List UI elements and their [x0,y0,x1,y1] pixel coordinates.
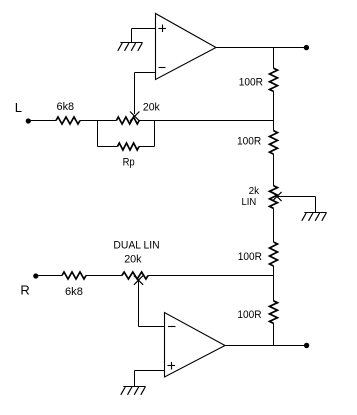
svg-text:2k: 2k [249,185,260,197]
svg-text:L: L [15,100,22,115]
svg-text:100R: 100R [238,251,262,263]
svg-text:20k: 20k [124,254,142,266]
svg-text:20k: 20k [143,102,160,114]
svg-text:100R: 100R [239,77,263,89]
svg-text:Rp: Rp [123,157,135,169]
svg-text:R: R [20,283,29,298]
svg-text:100R: 100R [237,309,261,321]
svg-text:6k8: 6k8 [57,101,75,113]
svg-text:6k8: 6k8 [65,286,83,298]
svg-text:LIN: LIN [242,196,257,208]
svg-text:100R: 100R [237,136,261,148]
svg-text:DUAL LIN: DUAL LIN [113,240,159,252]
